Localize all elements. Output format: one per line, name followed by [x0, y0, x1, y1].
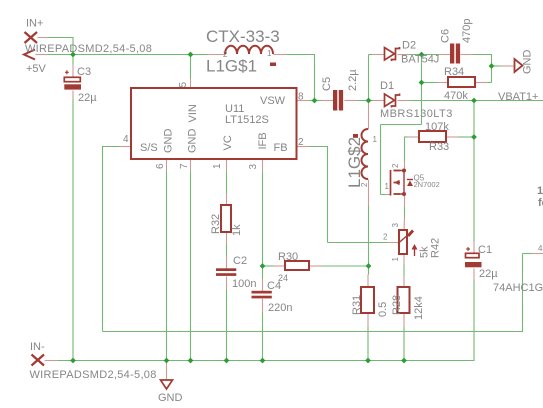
svg-text:VBAT1+: VBAT1+ [498, 91, 538, 103]
wire IFB column [262, 172, 264, 361]
svg-text:R32: R32 [210, 214, 222, 234]
phase dot L1G$1 [270, 63, 276, 67]
svg-text:C4: C4 [267, 280, 281, 292]
wire L1 to VSW corner [287, 54, 315, 101]
resistor R33 [419, 131, 446, 142]
pin stub R30 leads [274, 265, 322, 267]
pin stub IC bottom pins [167, 160, 263, 172]
svg-text:2.2µ: 2.2µ [347, 69, 359, 91]
capacitor C5 [333, 90, 343, 111]
pin stub IC pin8 [297, 100, 310, 102]
wire R30 left [263, 265, 274, 267]
capacitor C4 [252, 291, 272, 299]
pin stub IN+ pad [38, 37, 48, 39]
svg-text:74AHC1G: 74AHC1G [493, 282, 543, 294]
supply +5V arrow [24, 50, 35, 60]
pin stub R42 pot leads [388, 218, 405, 264]
svg-text:FB: FB [274, 142, 288, 154]
svg-text:2: 2 [223, 50, 228, 59]
svg-text:22µ: 22µ [78, 92, 97, 104]
svg-text:fo: fo [538, 197, 543, 209]
capacitor C1 [465, 247, 482, 267]
wire R33 left to Q5 drain [405, 137, 408, 162]
pin stub C4 leads [262, 279, 264, 313]
svg-text:2: 2 [391, 163, 400, 168]
svg-text:1k: 1k [231, 224, 243, 236]
svg-text:GND: GND [187, 129, 199, 154]
svg-text:22µ: 22µ [479, 268, 498, 280]
wire C6 to GND corner [472, 54, 501, 83]
svg-text:5: 5 [178, 82, 189, 88]
pin stub IN- pad [45, 360, 58, 362]
wire C3 top [72, 55, 74, 65]
svg-text:C1: C1 [478, 244, 492, 256]
pin stub GND right flag [501, 65, 515, 67]
pin stub C5 leads [322, 100, 357, 102]
svg-text:12k4: 12k4 [413, 296, 425, 320]
IC U11 LT1512S body [131, 88, 297, 159]
wire C5 to node [357, 100, 374, 102]
svg-text:VSW: VSW [260, 95, 286, 107]
svg-text:D1: D1 [380, 80, 394, 92]
wire GND rail IN- [58, 360, 475, 362]
wire VSW pin to C5 [310, 100, 322, 102]
wire D2 cathode to C6 [410, 54, 439, 56]
wire +5V rail top y=54 [48, 54, 208, 56]
wire VBAT1+ [410, 100, 543, 102]
svg-text:0.5: 0.5 [377, 302, 389, 317]
wire GND pin6 column [166, 172, 168, 361]
svg-text:D2: D2 [402, 40, 416, 52]
pin stub Q5 drain gate source [386, 162, 405, 207]
svg-text:IN+: IN+ [26, 18, 43, 30]
wire IN+ horizontal to corner [48, 37, 74, 55]
pin stub +5V arrow [36, 54, 48, 56]
pin stub R33 leads [408, 136, 459, 138]
svg-text:1: 1 [373, 135, 378, 144]
capacitor C2 [216, 268, 236, 276]
pin stub D1 leads [374, 100, 410, 102]
inductor L1G$2 [362, 129, 369, 179]
svg-text:R33: R33 [429, 141, 449, 153]
pin stub IC pin2 [297, 146, 310, 148]
svg-text:4: 4 [123, 134, 129, 145]
svg-text:220n: 220n [268, 302, 292, 314]
wire node up to D2 anode [369, 55, 373, 101]
pin stub R32 leads [226, 194, 228, 245]
svg-text:BAT54J: BAT54J [401, 54, 439, 66]
svg-text:CTX-33-3: CTX-33-3 [206, 27, 280, 46]
pin stub C3 leads [72, 65, 74, 100]
svg-text:VIN: VIN [187, 104, 199, 122]
wire R34 leads green [422, 82, 492, 84]
svg-text:R28: R28 [391, 295, 403, 315]
svg-text:470k: 470k [444, 90, 468, 102]
pin stub C1 leads [473, 242, 475, 280]
svg-text:C3: C3 [77, 66, 91, 78]
wire L1G$2 bottom to R31 [368, 206, 370, 275]
resistor R31 [361, 287, 374, 313]
svg-text:3: 3 [391, 223, 400, 228]
svg-text:WIREPADSMD2,54-5,08: WIREPADSMD2,54-5,08 [25, 43, 152, 55]
svg-text:WIREPADSMD2,54-5,08: WIREPADSMD2,54-5,08 [30, 369, 157, 381]
wire Q5 source to pot [404, 207, 406, 218]
diode D1 MBRS130LT3 [385, 94, 400, 108]
pin stub L1G$2 leads [368, 102, 370, 206]
wire R30 right [322, 265, 369, 267]
svg-text:1: 1 [385, 182, 390, 191]
svg-text:470p: 470p [461, 19, 473, 43]
pin stub C2 leads [226, 256, 228, 290]
svg-text:GND: GND [522, 50, 534, 75]
wire S/S net to 74AHC1G pin4 [103, 146, 532, 332]
wirepad IN- [32, 355, 45, 366]
svg-text:IN-: IN- [30, 341, 45, 353]
wire GND pin7 column [190, 172, 192, 361]
resistor R34 [448, 77, 475, 87]
wire R28 bottom to rail [403, 327, 405, 361]
svg-text:7: 7 [179, 163, 190, 169]
pin stub L1G$1 leads [208, 54, 287, 56]
wire pot to R28 [403, 264, 405, 276]
svg-text:L1G$1: L1G$1 [206, 57, 257, 76]
svg-text:4: 4 [538, 244, 543, 253]
wire VIN pin5 drop [190, 55, 192, 79]
wire R31 bottom to rail [367, 327, 369, 361]
gnd flag bottom [161, 380, 173, 389]
pin stub D2 leads [373, 54, 410, 56]
svg-text:2: 2 [383, 233, 388, 242]
svg-text:2: 2 [360, 182, 369, 187]
svg-text:+5V: +5V [26, 63, 47, 75]
wire VBAT down to C1 [473, 101, 475, 242]
svg-text:107k: 107k [425, 121, 449, 133]
wire C1 bottom to rail [473, 280, 475, 362]
wire FB net [310, 146, 388, 243]
resistor R32 [221, 205, 231, 232]
wire VC column [226, 172, 228, 361]
svg-text:MBRS130LT3: MBRS130LT3 [380, 108, 453, 120]
svg-text:6: 6 [155, 163, 166, 169]
svg-text:1: 1 [267, 49, 272, 58]
svg-text:VC: VC [222, 135, 234, 150]
transistor Q5 2N7002 [391, 169, 414, 197]
pin stub R28 leads [403, 276, 405, 327]
svg-text:C6: C6 [440, 29, 452, 43]
wire R33 right to C1 column [459, 136, 475, 138]
diode D2 BAT54J [385, 47, 400, 61]
pin stub 74AHC1G pin4 [532, 253, 543, 255]
phase dot L1G$2 [353, 134, 358, 138]
svg-text:IFB: IFB [257, 132, 269, 149]
pin stub IC pin4 [121, 146, 132, 148]
pin stub R31 leads [367, 275, 369, 327]
svg-text:R34: R34 [444, 66, 464, 78]
svg-text:GND: GND [163, 129, 175, 154]
svg-text:C5: C5 [321, 77, 333, 91]
resistor R30 [285, 261, 309, 270]
capacitor C6 [450, 44, 460, 64]
pin stub IC pin5 [190, 79, 192, 89]
svg-text:15: 15 [537, 185, 543, 197]
wirepad IN+ [25, 32, 38, 43]
potentiometer R42 [398, 230, 418, 256]
svg-text:2: 2 [298, 137, 304, 148]
svg-text:R42: R42 [430, 238, 442, 258]
wire D2-node down to gate route [381, 55, 422, 195]
wire C3 bottom to rail [72, 100, 74, 361]
pin stub C6 leads [439, 54, 472, 56]
svg-text:S/S: S/S [140, 142, 158, 154]
resistor R28 [398, 287, 410, 313]
svg-text:L1G$2: L1G$2 [345, 137, 364, 188]
svg-text:R30: R30 [278, 251, 298, 263]
pin stub R34 leads [437, 82, 488, 84]
svg-text:C2: C2 [233, 255, 247, 267]
svg-text:3: 3 [248, 164, 259, 170]
pin stub GND bottom flag [166, 361, 168, 381]
capacitor C3 [64, 70, 81, 89]
svg-text:1: 1 [391, 257, 400, 262]
gnd flag right [515, 59, 523, 72]
svg-text:100n: 100n [232, 278, 256, 290]
svg-text:1: 1 [212, 163, 223, 169]
svg-text:8: 8 [298, 92, 304, 103]
svg-text:GND: GND [158, 392, 183, 404]
svg-text:R31: R31 [351, 295, 363, 315]
svg-text:LT1512S: LT1512S [225, 114, 269, 126]
inductor L1G$1 [225, 46, 273, 54]
svg-text:2N7002: 2N7002 [414, 180, 440, 189]
